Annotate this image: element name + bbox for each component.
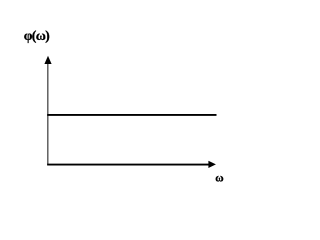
y-axis arrowhead [44,56,51,64]
x-axis arrowhead [208,161,216,168]
y-axis (vertical axis shaft) [47,63,49,165]
svg-text:φ(ω): φ(ω) [24,29,50,44]
constant phase plot line [47,114,216,116]
svg-text:ω: ω [215,173,223,185]
x-axis (horizontal axis shaft) [47,164,209,166]
